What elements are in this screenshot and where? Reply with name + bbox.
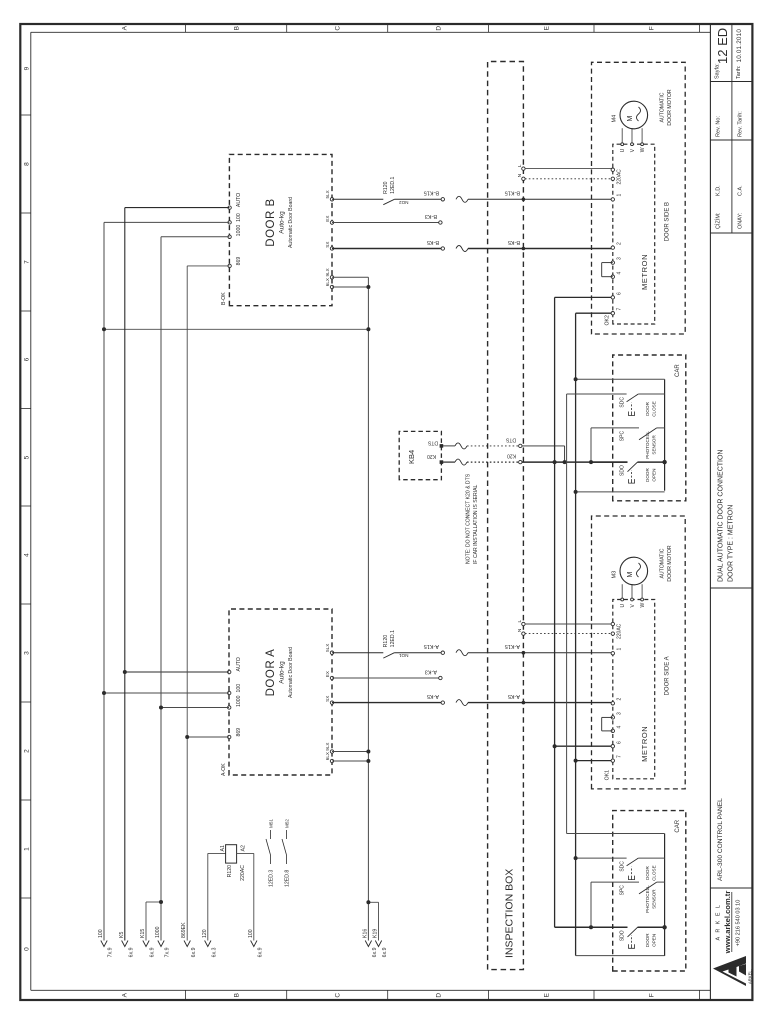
- svg-text:6x.3: 6x.3: [211, 947, 217, 957]
- svg-text:9LX: 9LX: [325, 743, 330, 751]
- wire riser door B 6LX: [332, 286, 368, 288]
- svg-text:NO2: NO2: [399, 200, 409, 205]
- svg-text:L: L: [517, 164, 523, 167]
- CAR2 bottom common bar: [664, 834, 666, 956]
- car operating panel box CAR2 dashed outline: [613, 811, 686, 971]
- door board DOOR A dashed outline: [229, 609, 332, 775]
- relay contact R120 12ED.1 (NO1) on wire x=371.3: [332, 652, 383, 654]
- svg-text:6: 6: [617, 741, 623, 744]
- svg-text:3: 3: [617, 712, 623, 715]
- rail wire pin7 net (y=575.6): [575, 313, 577, 955]
- svg-text:Rev. No:: Rev. No:: [716, 116, 722, 137]
- svg-text:B-K15: B-K15: [505, 190, 520, 196]
- svg-text:1: 1: [617, 194, 623, 197]
- svg-text:1000: 1000: [236, 225, 242, 237]
- svg-text:9LX: 9LX: [325, 268, 330, 276]
- svg-text:METRON: METRON: [640, 726, 649, 762]
- svg-text:Tarih:: Tarih:: [736, 65, 742, 79]
- svg-text:1: 1: [617, 648, 623, 651]
- node junction rail6/K20: [553, 460, 557, 464]
- sheet inner border frame: [30, 32, 32, 990]
- svg-text:U: U: [620, 148, 626, 152]
- motor M4 (automatic door motor): [620, 101, 648, 129]
- svg-text:SENSOR: SENSOR: [652, 435, 657, 455]
- node junction CAR1 door-open/bar: [662, 460, 666, 464]
- Metron B motor output pins U V W: [621, 128, 623, 144]
- svg-text:7x.9: 7x.9: [108, 947, 114, 957]
- node junction rail7/A-pin7: [574, 759, 578, 763]
- svg-text:6x.9: 6x.9: [150, 947, 156, 957]
- svg-text:D: D: [435, 26, 442, 31]
- svg-text:R120: R120: [383, 635, 389, 648]
- node junction busK16/B-6LX: [366, 285, 370, 289]
- svg-text:K5: K5: [119, 932, 125, 938]
- svg-text:A2: A2: [241, 845, 247, 851]
- svg-text:AUTOMATIC: AUTOMATIC: [660, 92, 666, 122]
- node junction rail7/CAR1 door close lead: [574, 377, 578, 381]
- svg-text:DOOR: DOOR: [645, 933, 650, 947]
- Metron door controller box A dashed outline: [613, 600, 655, 779]
- svg-text:NOTE: DO NOT CONNECT K20 & DTS: NOTE: DO NOT CONNECT K20 & DTS: [466, 473, 472, 564]
- svg-text:R120: R120: [227, 865, 233, 878]
- svg-text:DOOR: DOOR: [645, 866, 650, 880]
- node junction CAR2 spc jog: [589, 925, 593, 929]
- wire K15 drop to bus 1000: [146, 901, 161, 903]
- ruler ticks top band (column dividers): [20, 897, 31, 899]
- connector box KB4 dashed outline: [399, 431, 441, 479]
- svg-text:PHOTOCELL: PHOTOCELL: [645, 885, 650, 913]
- svg-text:AUTO: AUTO: [236, 193, 242, 207]
- svg-text:220AC: 220AC: [240, 865, 246, 881]
- svg-text:5LX: 5LX: [325, 644, 330, 652]
- ruler ticks right band (row dividers): [185, 24, 187, 32]
- node junction bus100/A-100: [102, 691, 106, 695]
- wire riser door B pin 100: [104, 221, 229, 223]
- svg-text:120: 120: [202, 929, 208, 938]
- svg-text:A: A: [121, 25, 128, 30]
- svg-text:DOOR SIDE A: DOOR SIDE A: [665, 656, 671, 695]
- svg-text:1000: 1000: [236, 695, 242, 707]
- relay contact R120 12ED.1 (NO2) on wire x=824.7: [332, 198, 383, 200]
- node junction busK16/A-9LX: [366, 750, 370, 754]
- CAR1 door close contact SDC: [576, 378, 665, 380]
- svg-text:Automatic Door Board: Automatic Door Board: [288, 647, 294, 698]
- wire riser door B AUTO: [125, 207, 230, 209]
- svg-text:100: 100: [98, 929, 104, 938]
- svg-text:M: M: [627, 572, 634, 578]
- svg-text:AUTO: AUTO: [236, 657, 242, 671]
- svg-text:7: 7: [617, 308, 623, 311]
- ruler ticks left band (row dividers): [185, 990, 187, 1000]
- svg-text:3: 3: [24, 651, 31, 655]
- svg-text:M52: M52: [285, 819, 290, 828]
- CAR1 photocell contact SPC: [590, 428, 592, 462]
- wire corner to Metron B pin6: [555, 296, 613, 298]
- svg-text:12ED.8: 12ED.8: [285, 870, 291, 887]
- wire A-K5 (door A SX to Metron A pin2): [332, 702, 441, 704]
- svg-text:M3: M3: [612, 571, 618, 579]
- svg-text:12ED.3: 12ED.3: [269, 870, 275, 887]
- svg-text:CAR: CAR: [675, 819, 681, 832]
- svg-text:DOOR MOTOR: DOOR MOTOR: [667, 545, 673, 581]
- svg-text:SDC: SDC: [620, 861, 626, 872]
- bus wire 100 (y=104): [103, 222, 105, 940]
- svg-text:DOOR MOTOR: DOOR MOTOR: [667, 89, 673, 125]
- svg-text:B-K5: B-K5: [427, 239, 439, 245]
- node terminal A-K15 on inspection box edge: [522, 651, 526, 655]
- svg-text:10.01.2010: 10.01.2010: [736, 29, 743, 63]
- wire riser door A pin 869: [187, 736, 229, 738]
- Metron A terminal pins: [611, 622, 614, 625]
- svg-text:B: B: [233, 993, 240, 997]
- svg-text:12ED.1: 12ED.1: [390, 176, 396, 193]
- relay coil R120 220AC: [226, 845, 237, 863]
- svg-text:CAR: CAR: [675, 364, 681, 377]
- CAR1 bottom common bar: [664, 379, 666, 490]
- bus wire K5-AUTO (y=124.8): [124, 208, 126, 941]
- CAR2 door open contact SDO: [591, 926, 628, 928]
- car operating panel box CAR1 dashed outline: [613, 355, 686, 501]
- svg-text:1: 1: [24, 847, 31, 851]
- svg-text:SX: SX: [325, 242, 330, 248]
- svg-text:N: N: [517, 628, 523, 632]
- svg-text:A-OK: A-OK: [221, 763, 227, 776]
- svg-text:6x.9: 6x.9: [372, 947, 378, 957]
- wire N to Metron 220AC (dotted): [525, 178, 613, 180]
- KB4 pin K20: [440, 460, 444, 464]
- svg-text:12ED.1: 12ED.1: [390, 630, 396, 647]
- svg-text:V: V: [630, 604, 636, 608]
- svg-text:KB4: KB4: [407, 450, 416, 464]
- svg-text:2: 2: [24, 749, 31, 753]
- svg-text:6LX: 6LX: [325, 278, 330, 286]
- wire riser door B 9LX: [332, 276, 368, 278]
- door side outer box B dashed outline: [592, 62, 686, 334]
- svg-text:5: 5: [24, 455, 31, 459]
- wire DTS (KB4 to K20 link, dotted): [441, 445, 455, 447]
- CAR1 door open contact SDO: [591, 461, 628, 463]
- svg-text:SDC: SDC: [620, 397, 626, 408]
- KB4 pin DTS: [440, 444, 444, 448]
- wire riser door A 6LX: [332, 760, 368, 762]
- bus wire 100 return (y=253.8): [253, 853, 255, 940]
- off-page connector K16 (6x.9): [365, 941, 371, 947]
- door board A bottom pins 5LX/EX/SX/9LX/6LX: [330, 651, 333, 654]
- wire 120 drop to relay coil A1: [208, 852, 226, 854]
- door side outer box A dashed outline: [592, 516, 686, 789]
- svg-text:2: 2: [617, 242, 623, 245]
- svg-text:220AC: 220AC: [617, 623, 623, 639]
- svg-text:B-K5: B-K5: [508, 239, 520, 245]
- svg-text:SPC: SPC: [620, 431, 626, 442]
- svg-text:R120: R120: [383, 181, 389, 194]
- svg-text:METRON: METRON: [640, 254, 649, 290]
- off-page connector K19 (6x.9): [375, 941, 381, 947]
- svg-text:DOOR B: DOOR B: [265, 198, 277, 246]
- wire riser door B pin 869: [187, 265, 229, 267]
- svg-text:M51: M51: [269, 819, 274, 828]
- svg-text:PHOTOCELL: PHOTOCELL: [645, 431, 650, 459]
- svg-text:7: 7: [617, 755, 623, 758]
- svg-text:DOOR SIDE B: DOOR SIDE B: [665, 202, 671, 241]
- svg-text:4: 4: [617, 726, 623, 729]
- off-page connector K15 (6x.9): [143, 941, 149, 947]
- svg-text:869EK: 869EK: [181, 922, 187, 938]
- bus wire K19 (y=378.5): [378, 902, 380, 940]
- wire CAR2 bar left riser to rail7: [576, 955, 665, 957]
- svg-text:DTS: DTS: [427, 440, 438, 446]
- node junction busK5/A-AUTO: [123, 670, 127, 674]
- svg-text:K.D.: K.D.: [716, 185, 722, 196]
- wire L to Metron 220AC: [525, 168, 613, 170]
- svg-text:AUTOMATIC: AUTOMATIC: [660, 548, 666, 578]
- svg-text:OK1: OK1: [605, 770, 611, 780]
- svg-text:A-K15: A-K15: [424, 643, 439, 649]
- svg-text:ÇİZİM:: ÇİZİM:: [715, 212, 722, 229]
- Metron door controller box B dashed outline: [613, 144, 655, 324]
- svg-text:A-K5: A-K5: [427, 693, 439, 699]
- svg-text:W: W: [640, 603, 646, 608]
- node junction rail6/A-pin6: [553, 744, 557, 748]
- off-page connector 120 (6x.3): [205, 941, 211, 947]
- svg-text:B-K3: B-K3: [425, 213, 437, 219]
- bus wire 869 (y=187.2): [186, 266, 188, 941]
- wire B-K3 (door B EX, unconnected): [332, 222, 439, 224]
- svg-text:M: M: [627, 116, 634, 122]
- svg-text:100: 100: [248, 929, 254, 938]
- svg-text:869: 869: [236, 257, 242, 266]
- svg-text:B-K15: B-K15: [424, 190, 439, 196]
- svg-text:Sayfa:: Sayfa:: [715, 63, 721, 79]
- svg-text:K19: K19: [373, 929, 379, 938]
- svg-text:L: L: [517, 620, 523, 623]
- off-page connector K5 (6x.9): [122, 941, 128, 947]
- svg-text:K20: K20: [507, 453, 516, 459]
- svg-text:3: 3: [617, 257, 623, 260]
- wire riser Metron A pin7: [576, 760, 613, 762]
- svg-text:DOOR: DOOR: [645, 468, 650, 482]
- off-page connector 100 (6x.9): [251, 941, 257, 947]
- door board B bottom pins 5LX/EX/SX/9LX/6LX: [330, 198, 333, 201]
- wire riser door A 9LX: [332, 751, 368, 753]
- svg-text:ARKEL.: ARKEL.: [748, 969, 753, 984]
- bus wire K15 stub (y=146): [145, 902, 147, 941]
- svg-text:C: C: [334, 26, 341, 31]
- door board A top pins AUTO/100/1000/869: [228, 670, 231, 673]
- svg-text:ARL-300 CONTROL PANEL: ARL-300 CONTROL PANEL: [717, 798, 724, 881]
- svg-text:IF CAR INSTALLATION IS SERIAL: IF CAR INSTALLATION IS SERIAL: [473, 484, 479, 564]
- svg-text:CLOSE: CLOSE: [652, 865, 657, 881]
- svg-text:A-K5: A-K5: [508, 693, 520, 699]
- CAR2 door close contact SDC: [567, 833, 665, 835]
- svg-text:A1: A1: [220, 845, 226, 851]
- svg-text:N: N: [517, 173, 523, 177]
- svg-text:8: 8: [24, 162, 31, 166]
- wire K20 (KB4 through inspection box to car door-open circuit): [441, 461, 455, 463]
- terminal N on inspection box (dotted neutral): [522, 632, 525, 635]
- off-page connector 1000 (7x.9): [158, 941, 164, 947]
- svg-text:869: 869: [236, 728, 242, 737]
- svg-text:6x.9: 6x.9: [128, 947, 134, 957]
- svg-text:100: 100: [236, 684, 242, 693]
- svg-text:DOOR TYPE : METRON: DOOR TYPE : METRON: [728, 505, 735, 582]
- node terminal B-K5 on inspection box edge: [522, 247, 526, 251]
- door board B top pins AUTO/100/1000/869: [228, 206, 231, 209]
- svg-text:5LX: 5LX: [325, 190, 330, 198]
- svg-text:www.arkel.com.tr: www.arkel.com.tr: [723, 891, 732, 955]
- Metron B terminal pins: [611, 168, 614, 171]
- svg-text:12 ED: 12 ED: [715, 28, 730, 64]
- svg-text:6: 6: [24, 357, 31, 361]
- node terminal A-K5 on inspection box edge: [522, 701, 526, 705]
- wire B-K5 (door B SX to Metron B pin2): [332, 248, 441, 250]
- svg-text:SX: SX: [325, 696, 330, 702]
- node junction rail7/CAR1 bar riser: [574, 490, 578, 494]
- svg-text:K20: K20: [427, 453, 436, 459]
- svg-text:K15: K15: [140, 929, 146, 938]
- rail wire door-close series link (y=566.6): [566, 394, 568, 834]
- svg-text:OPEN: OPEN: [652, 934, 657, 947]
- wire CAR2 thick door-open feed from rail6: [555, 926, 591, 928]
- svg-text:D: D: [435, 993, 442, 998]
- node junction busK16/K19: [366, 900, 370, 904]
- svg-text:SDO: SDO: [620, 930, 626, 941]
- svg-text:7x.9: 7x.9: [165, 947, 171, 957]
- wire CAR1 bar left riser to rail7: [576, 491, 665, 493]
- svg-text:6LX: 6LX: [325, 752, 330, 760]
- svg-text:7: 7: [24, 260, 31, 264]
- svg-text:NO1: NO1: [399, 653, 409, 658]
- svg-text:+90 216 540 03 10: +90 216 540 03 10: [736, 900, 742, 947]
- bus wire 120 (y=207.8): [207, 853, 209, 940]
- node junction DTS/K20: [563, 460, 567, 464]
- svg-text:1000: 1000: [155, 926, 161, 938]
- inspection box dashed outline: [488, 62, 524, 970]
- wire riser door A AUTO: [125, 671, 229, 673]
- node junction rail7/CAR2 door close exit: [574, 856, 578, 860]
- rail wire K20/pin6 net (y=554.6): [554, 297, 556, 927]
- svg-text:ONAY:: ONAY:: [738, 212, 744, 229]
- svg-text:W: W: [640, 147, 646, 152]
- wire L to Metron 220AC: [525, 623, 613, 625]
- svg-text:Rev. Tarih:: Rev. Tarih:: [738, 111, 744, 137]
- ARKEL logo mark: [713, 956, 753, 986]
- wire N to Metron 220AC (dotted): [525, 633, 613, 635]
- svg-text:EX: EX: [325, 216, 330, 222]
- svg-text:A: A: [121, 992, 128, 997]
- svg-text:Automatic Door Board: Automatic Door Board: [288, 197, 294, 248]
- svg-text:2: 2: [617, 698, 623, 701]
- wire DTS elbow to K20: [564, 446, 566, 462]
- title block top line: [709, 24, 711, 1000]
- CAR2 photocell contact SPC: [590, 882, 592, 927]
- Metron A motor output pins U V W: [621, 584, 623, 599]
- svg-text:SDO: SDO: [620, 465, 626, 476]
- svg-text:DOOR: DOOR: [645, 401, 650, 415]
- terminal N on inspection box (dotted neutral): [522, 177, 525, 180]
- title block cell dividers: [710, 887, 752, 889]
- svg-text:E: E: [543, 992, 550, 997]
- svg-text:OPEN: OPEN: [652, 469, 657, 482]
- node terminal B-K15 on inspection box edge: [522, 198, 526, 202]
- motor M3 (automatic door motor): [620, 557, 648, 585]
- svg-text:100: 100: [236, 213, 242, 222]
- svg-text:A-K3: A-K3: [425, 668, 437, 674]
- svg-text:U: U: [620, 604, 626, 608]
- bus wire K16 (y=368.4): [367, 277, 369, 940]
- wire corner to Metron B pin7: [576, 312, 613, 314]
- svg-text:CLOSE: CLOSE: [652, 401, 657, 417]
- wire K19 branch drop: [368, 901, 378, 903]
- svg-text:220AC: 220AC: [617, 169, 623, 185]
- node junction bus1000/K15: [159, 900, 163, 904]
- svg-text:A-K15: A-K15: [505, 643, 520, 649]
- wire riser door A pin 100: [104, 692, 229, 694]
- svg-text:DOOR A: DOOR A: [265, 649, 277, 697]
- svg-text:INSPECTION BOX: INSPECTION BOX: [504, 869, 516, 958]
- svg-text:C.A.: C.A.: [738, 185, 744, 196]
- svg-text:DUAL AUTOMATIC DOOR CONNECTION: DUAL AUTOMATIC DOOR CONNECTION: [718, 450, 725, 583]
- svg-text:B: B: [233, 26, 240, 30]
- svg-text:F: F: [648, 26, 655, 30]
- title block mid line (right cells): [731, 24, 733, 233]
- node junction bus1000/A-1000: [159, 706, 163, 710]
- bus wire 1000 (y=161): [160, 237, 162, 941]
- svg-text:F: F: [648, 993, 655, 997]
- svg-text:4: 4: [24, 553, 31, 557]
- svg-text:DTS: DTS: [505, 437, 516, 443]
- node junction bus100/link: [102, 327, 106, 331]
- node junction CAR2 door-open/bar: [662, 925, 666, 929]
- door board DOOR B dashed outline: [229, 154, 332, 305]
- wire riser door A pin 1000: [161, 707, 229, 709]
- off-page connector 100 (7x.9): [101, 941, 107, 947]
- svg-text:M4: M4: [612, 115, 618, 123]
- svg-text:OK2: OK2: [605, 315, 611, 325]
- node junction bus869/A-869: [185, 735, 189, 739]
- wire A-K3 (door A EX, unconnected): [332, 677, 439, 679]
- svg-text:Auto-kg: Auto-kg: [278, 211, 285, 234]
- svg-text:K16: K16: [362, 929, 368, 938]
- node junction busK16/link100: [366, 327, 370, 331]
- Metron A pins 3-4 jumper: [602, 716, 613, 718]
- terminal L on inspection box (mains 220AC): [522, 622, 525, 625]
- wire link bus100 to bus K16: [104, 328, 368, 330]
- wire riser door B pin 1000: [161, 236, 229, 238]
- svg-text:0: 0: [24, 947, 31, 951]
- svg-text:V: V: [630, 148, 636, 152]
- svg-text:A R K E L: A R K E L: [716, 904, 722, 941]
- svg-text:EX: EX: [325, 671, 330, 677]
- svg-text:Auto-kg: Auto-kg: [278, 661, 285, 684]
- off-page connector 869EK (6x.9): [184, 941, 190, 947]
- svg-text:E: E: [543, 25, 550, 30]
- svg-text:6x.9: 6x.9: [191, 947, 197, 957]
- svg-text:SPC: SPC: [620, 885, 626, 896]
- svg-text:6x.9: 6x.9: [257, 947, 263, 957]
- node junction CAR1 spc jog: [589, 460, 593, 464]
- terminal L on inspection box (mains 220AC): [522, 167, 525, 170]
- node junction busK16/A-6LX: [366, 759, 370, 763]
- svg-text:6x.9: 6x.9: [382, 947, 388, 957]
- svg-text:B-OK: B-OK: [221, 292, 227, 305]
- Metron B pins 3-4 jumper: [602, 262, 613, 264]
- svg-text:4: 4: [617, 272, 623, 275]
- svg-text:6: 6: [617, 292, 623, 295]
- svg-text:C: C: [334, 993, 341, 998]
- wire riser Metron A pin6: [555, 745, 613, 747]
- svg-text:SENSOR: SENSOR: [652, 889, 657, 909]
